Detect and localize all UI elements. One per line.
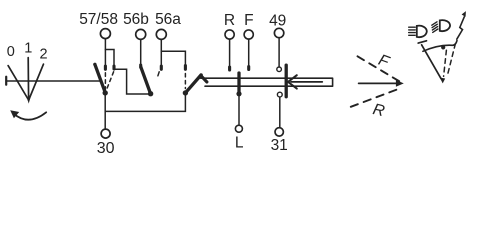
travel arc xyxy=(423,41,457,52)
contact tip a1 xyxy=(104,66,107,69)
svg-text:56a: 56a xyxy=(155,11,181,28)
node turn lever pivot xyxy=(183,90,188,95)
terminal R xyxy=(225,30,234,39)
wire 49 drop xyxy=(278,38,280,67)
high beam symbol lamp xyxy=(417,26,427,38)
wire F drop xyxy=(248,39,250,65)
svg-text:0: 0 xyxy=(7,44,15,60)
svg-text:49: 49 xyxy=(269,12,286,29)
column lever handle bar xyxy=(418,41,426,43)
terminal F xyxy=(244,30,253,39)
dashed lever position R xyxy=(351,88,400,106)
wire L drop xyxy=(238,95,240,125)
terminal 31 xyxy=(275,128,283,136)
direction arrow in bar xyxy=(291,81,322,83)
svg-text:1: 1 xyxy=(24,40,32,56)
wire 31 drop xyxy=(279,97,281,128)
terminal L xyxy=(235,125,242,132)
contact tip R xyxy=(228,67,231,70)
lever motion arrow xyxy=(359,82,398,84)
terminal 56b xyxy=(136,29,146,39)
dimmer lever xyxy=(141,67,150,93)
node junction S1 xyxy=(103,90,108,95)
turn signal lever contact xyxy=(186,75,201,92)
contact tip 56 xyxy=(184,66,187,70)
dashed lever position F xyxy=(358,56,402,82)
svg-text:57/58: 57/58 xyxy=(79,11,118,28)
node dimmer xyxy=(148,91,153,96)
rotary switch position line 1 xyxy=(27,58,29,101)
column lever solid position xyxy=(422,45,441,79)
rotary switch tip xyxy=(27,98,30,103)
dashed alt position 56a xyxy=(158,72,159,76)
wire feed to dimmer xyxy=(115,69,148,94)
wire 57/58 drop xyxy=(104,39,106,65)
contact tip a2 xyxy=(112,66,115,69)
high beam symbol lines xyxy=(409,27,416,35)
svg-text:L: L xyxy=(235,134,244,151)
rotary switch position line 2 xyxy=(29,64,44,99)
L bridge contact xyxy=(237,73,240,93)
flash arrow zigzag xyxy=(457,17,465,39)
svg-text:30: 30 xyxy=(97,140,115,157)
slider wedge xyxy=(201,76,207,82)
contact point 31 xyxy=(277,92,282,97)
dashed alt position a1 xyxy=(104,73,106,90)
actuator bar slider xyxy=(201,78,333,86)
dashed closed position 56 xyxy=(184,74,186,89)
svg-text:56b: 56b xyxy=(123,11,149,28)
contact tip 56a xyxy=(160,66,163,69)
wire 56a branch xyxy=(161,51,185,64)
wire 56a drop xyxy=(160,40,162,65)
switch lever S1 xyxy=(95,64,105,92)
dashed alt position a2 xyxy=(106,72,113,90)
svg-text:2: 2 xyxy=(40,47,48,63)
column lever dashed mid xyxy=(444,50,447,76)
wire main bus left with end tick xyxy=(5,77,7,85)
wire R drop xyxy=(229,39,231,65)
terminal 30 xyxy=(101,129,110,138)
terminal 56a xyxy=(156,29,166,39)
svg-text:31: 31 xyxy=(271,137,288,154)
rotation arrow xyxy=(14,112,46,119)
low beam symbol lines xyxy=(432,22,438,33)
low beam symbol lamp xyxy=(440,20,450,31)
column lever dashed right xyxy=(447,44,455,77)
contact point 49 xyxy=(277,67,282,72)
contact tip 56b xyxy=(139,65,142,68)
detent dot xyxy=(441,45,445,49)
terminal 49 xyxy=(274,28,283,37)
wire bottom bus xyxy=(105,95,185,112)
rotary switch position line 0 xyxy=(8,66,28,100)
wire junction to 30 xyxy=(104,93,106,129)
terminal 57/58 xyxy=(100,29,110,39)
flasher bridge contact xyxy=(285,65,288,97)
svg-text:F: F xyxy=(244,12,253,29)
contact tip F xyxy=(247,67,250,70)
svg-text:R: R xyxy=(224,12,235,29)
svg-text:R: R xyxy=(371,101,387,120)
column lever pull arrowhead xyxy=(440,78,446,84)
wire branch to second contact xyxy=(105,50,114,65)
wire 56b drop xyxy=(140,40,142,64)
svg-text:F: F xyxy=(376,52,392,72)
